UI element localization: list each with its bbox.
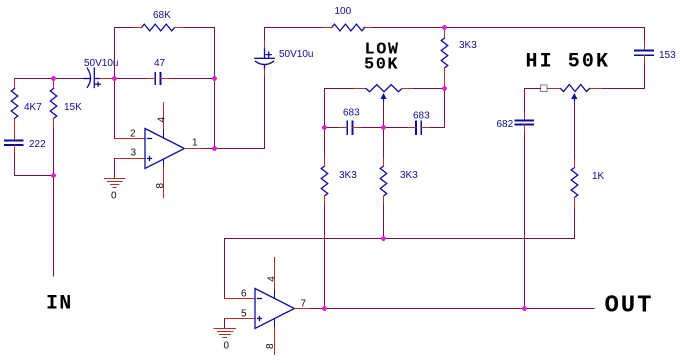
svg-text:0: 0 [224, 341, 230, 352]
svg-text:4: 4 [266, 276, 277, 282]
wire output node to coupling cap [215, 76, 265, 149]
wire node B down to output node [214, 79, 216, 149]
svg-text:2: 2 [130, 129, 136, 140]
wire node A up to feedback corner [114, 28, 116, 79]
svg-text:153: 153 [659, 50, 676, 61]
op-amp U1B triangle [255, 289, 294, 329]
wire IN stub [53, 176, 55, 277]
wire 222 to node IN2 [15, 145, 54, 176]
svg-text:682: 682 [497, 119, 514, 130]
node dot H (324.5,308.5) [322, 306, 327, 311]
wire 153 top lead [644, 42, 646, 51]
resistor 1K [571, 168, 578, 239]
capacitor 50V10u interstage coupling (polarized, vertical) [255, 48, 274, 69]
node dot E (324.5,127.5) [322, 125, 327, 130]
wire pin 3 to ground [114, 159, 116, 179]
svg-text:683: 683 [343, 108, 360, 119]
wire feedback top left [115, 27, 142, 29]
ground GND2 [214, 329, 235, 338]
svg-text:1: 1 [192, 138, 198, 149]
svg-text:50V10u: 50V10u [84, 58, 118, 69]
svg-text:68K: 68K [153, 10, 171, 21]
wire 100 to node C [364, 27, 445, 29]
wire LOW pot right to node D [402, 88, 414, 90]
svg-text:3: 3 [131, 148, 137, 159]
svg-text:HI 50K: HI 50K [526, 51, 611, 74]
wire center node to 683 right [384, 127, 417, 129]
capacitor 50V10u input coupling (polarized) [84, 68, 100, 88]
svg-text:6: 6 [241, 289, 247, 300]
wire 682 down to output node [524, 125, 526, 134]
svg-text:3K3: 3K3 [459, 40, 477, 51]
svg-text:8: 8 [265, 343, 276, 349]
resistor 100 [332, 24, 365, 31]
wire HI pot left to 682 [525, 89, 541, 113]
op-amp U1B pin 8 lead [274, 319, 276, 327]
svg-text:8: 8 [155, 183, 166, 189]
svg-text:3K3: 3K3 [339, 170, 357, 181]
svg-text:50V10u: 50V10u [279, 49, 313, 60]
node dot A (114.5,78.5) [112, 76, 117, 81]
wire pin 2 [115, 138, 146, 140]
capacitor 683 (left) [347, 122, 352, 135]
wire input cap to node A [100, 78, 115, 80]
svg-text:222: 222 [29, 139, 46, 150]
op-amp U1A pin 8 lead [163, 159, 165, 167]
wire output pin 1 [184, 148, 204, 150]
svg-text:IN: IN [46, 293, 72, 316]
wire 47 cap to node B [160, 78, 214, 80]
op-amp U1B pin 4 lead [274, 258, 276, 291]
svg-text:1K: 1K [592, 171, 605, 182]
wire node A down to pin2 corner [114, 79, 116, 139]
wire 15K to node IN2 [53, 128, 55, 176]
wire LOW wiper down to center node [383, 101, 385, 128]
capacitor 153 [635, 51, 653, 56]
coupling cap pin leads [264, 69, 266, 76]
svg-text:47: 47 [154, 58, 166, 69]
resistor 4K7 [11, 79, 18, 130]
wire 153 down to HI pot right [644, 55, 646, 63]
potentiometer HI 50K [561, 85, 590, 102]
wire output pin 7 [294, 308, 310, 310]
op-amp U1A triangle [145, 129, 184, 169]
wire node C to 153 corner [445, 28, 645, 43]
node dot B (214.5,78.5) [212, 76, 217, 81]
svg-text:7: 7 [301, 299, 307, 310]
wire feedback top right [175, 28, 215, 79]
wire LOW pot left corner [325, 89, 355, 128]
wire node D down to 683 right [421, 89, 444, 128]
wire pin 5 to ground [224, 319, 226, 329]
terminal square (HI pot wiper terminal) [541, 85, 548, 92]
resistor 3K3 (middle) [380, 128, 387, 239]
svg-text:50K: 50K [364, 56, 399, 75]
op-amp U1A pin 4 lead [163, 103, 165, 131]
wire HI wiper down to 1K [574, 101, 576, 168]
wire input rail to node IN1 [15, 78, 84, 80]
svg-text:15K: 15K [64, 102, 82, 113]
wire feedback bus (pin 6 net) [225, 239, 575, 299]
wire coupling cap to top rail [265, 28, 332, 41]
node dot F (383.5,127.5) [381, 125, 386, 130]
svg-text:5: 5 [241, 309, 247, 320]
svg-text:3K3: 3K3 [400, 170, 418, 181]
node dot J (524.5,308.5) [522, 306, 527, 311]
node dot out1 (214.5,148.5) [212, 146, 217, 151]
wire pin 6 [225, 298, 256, 300]
svg-text:OUT: OUT [605, 293, 654, 320]
resistor 3K3 (top right) [441, 28, 448, 89]
svg-text:4: 4 [156, 117, 167, 123]
resistor 68K [142, 24, 175, 31]
resistor 3K3 (left) [321, 128, 328, 309]
wire caps row left [325, 127, 348, 129]
node dot IN2 (53.5,175.5) [51, 173, 56, 178]
wire pin 5 [225, 318, 256, 320]
svg-text:100: 100 [335, 6, 352, 17]
wire square to HI pot [548, 88, 561, 90]
wire 4K7 to 222 [14, 129, 16, 141]
capacitor 47 [155, 73, 160, 84]
ground GND1 [105, 179, 125, 188]
capacitor 683 (right) [416, 122, 421, 135]
wire pin 3 [115, 158, 146, 160]
wire 683 left to center node [352, 127, 383, 129]
wire node A to 47 cap [115, 78, 156, 80]
node dot IN1 (53.5,78.5) [51, 76, 56, 81]
node dot C (444.5,27.5) [442, 25, 447, 30]
potentiometer LOW 50K [366, 85, 402, 101]
svg-text:0: 0 [111, 191, 117, 202]
resistor 15K [50, 79, 57, 129]
capacitor 222 [5, 141, 23, 146]
capacitor 682 [516, 121, 534, 125]
svg-text:683: 683 [413, 111, 430, 122]
svg-text:4K7: 4K7 [24, 102, 42, 113]
node dot G (383.5,238.5) [381, 236, 386, 241]
wire red lead stubs at component pins [15, 28, 575, 205]
node dot D (444.5,88.5) [442, 86, 447, 91]
